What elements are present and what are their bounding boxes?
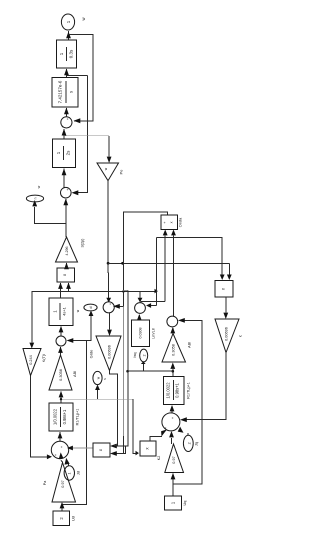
svg-text:1/0.0022: 1/0.0022 <box>53 408 58 425</box>
svg-text:0.98s+1: 0.98s+1 <box>62 409 67 424</box>
svg-text:+: + <box>60 446 64 448</box>
wire S3 to T3 <box>109 313 111 330</box>
svg-text:Uq: Uq <box>182 501 187 506</box>
svg-text:0.3s: 0.3s <box>69 49 74 58</box>
sum S4a <box>135 303 146 314</box>
svg-text:K2: K2 <box>157 456 161 460</box>
wire B5 right input from S5a <box>173 236 175 317</box>
wire Uq feedback into S5a right <box>173 320 202 484</box>
svg-text:0.3058: 0.3058 <box>172 344 176 356</box>
svg-text:+: + <box>61 126 65 128</box>
svg-text:0.3058: 0.3058 <box>59 369 63 381</box>
svg-text:1: 1 <box>68 473 72 475</box>
gain T5 0.3058 q (points up) <box>162 334 186 363</box>
svg-text:+: + <box>109 303 113 305</box>
svg-text:+: + <box>54 454 58 456</box>
svg-text:0.98s+1: 0.98s+1 <box>175 382 180 397</box>
svg-text:0.244: 0.244 <box>29 355 33 365</box>
svg-text:+: + <box>56 343 60 345</box>
wire O7 into S7 <box>68 463 70 466</box>
svg-text:R1/TLp+1: R1/TLp+1 <box>76 409 80 426</box>
svg-text:Lm/Llr: Lm/Llr <box>151 327 156 339</box>
wire B3 to S1 with faint tap to T2 <box>63 129 65 139</box>
sum S3 <box>103 302 114 313</box>
svg-text:4.296: 4.296 <box>65 247 69 256</box>
product P2q <box>140 441 156 456</box>
outport O1 "w" <box>61 14 74 30</box>
svg-text:ic: ic <box>239 334 243 337</box>
wire gray from B7 junction to O5 <box>61 398 133 400</box>
outport O2 <box>26 195 43 202</box>
transfer function B2 7.42157e-6/s <box>52 78 78 108</box>
svg-text:0.0308: 0.0308 <box>139 328 143 339</box>
wire B2 to B1 with junction <box>66 69 68 78</box>
transfer function B1 1/(0.3s) <box>57 40 77 68</box>
svg-text:Pa: Pa <box>43 481 47 485</box>
gain K(T) 0.244 (points down) <box>23 349 41 376</box>
wire lambda-q horizontal to x=128 <box>128 370 173 372</box>
svg-text:2: 2 <box>188 442 192 444</box>
svg-text:2: 2 <box>143 354 147 356</box>
transfer function B3 1/(2s) <box>53 139 76 168</box>
wire T2 output down to junction and S3 top <box>107 181 109 264</box>
product P3 <box>215 281 233 298</box>
wire P3 right input from T2 junction line <box>228 263 230 274</box>
svg-text:3(2p): 3(2p) <box>81 238 85 248</box>
svg-text:2s: 2s <box>66 150 71 156</box>
svg-text:+: + <box>66 188 70 190</box>
svg-text:+: + <box>66 118 70 120</box>
svg-text:Jq: Jq <box>194 442 199 446</box>
gain T3 0.00696 (points down) <box>96 336 121 371</box>
transfer function B4 1/(4s+1) <box>49 298 73 326</box>
svg-text:1/0.0022: 1/0.0022 <box>166 382 171 399</box>
gain 0.97d (points up) <box>52 463 76 503</box>
wire branch into S4a top <box>139 292 141 299</box>
svg-text:Pe: Pe <box>120 170 124 175</box>
gain T4 0.00696 (points down) <box>215 319 239 353</box>
svg-text:7.42157e-6: 7.42157e-6 <box>58 80 63 103</box>
wire S1 to B2 <box>65 108 67 117</box>
svg-text:n: n <box>34 197 38 199</box>
svg-text:d: d <box>89 306 93 308</box>
wire lambda-d drop to K(T) <box>31 292 33 343</box>
block B6 0.0308 <box>132 320 150 347</box>
wire P2d output gray into S7 <box>70 447 93 449</box>
wire S7 to B7 <box>59 432 61 441</box>
wire cross line to P3 <box>108 262 229 264</box>
wire U1q to K2q with junction <box>172 474 174 497</box>
sum S5a <box>167 316 178 327</box>
outport O5 <box>93 371 102 384</box>
wire B5 output drop <box>117 212 168 306</box>
sum S2b <box>56 336 66 346</box>
svg-text:w: w <box>37 185 41 188</box>
wire P1 to T1 <box>66 263 68 268</box>
svg-text:+: + <box>163 221 167 223</box>
gain ABI-d 0.3058 (points up) <box>49 355 72 390</box>
svg-text:0.00696: 0.00696 <box>225 327 229 341</box>
wire into O6 from lambda-q line <box>143 363 145 371</box>
wire K2q to S6 <box>171 438 173 444</box>
gain T2 (feedback, points down) <box>97 163 119 181</box>
gain K2q 0.97 (points up) <box>165 444 184 473</box>
wire Ud tap into S2b and O3 <box>62 341 87 505</box>
wire P2q output to S6 <box>150 437 162 442</box>
wire S6 to B8 <box>171 406 173 413</box>
wire S2 to B3 <box>63 169 65 188</box>
svg-text:Jd: Jd <box>76 471 81 475</box>
svg-text:0.97: 0.97 <box>172 456 176 463</box>
sum S7 <box>51 441 68 458</box>
inport O4 <box>183 435 193 451</box>
svg-text:+: + <box>135 311 139 313</box>
transfer function B7 <box>49 403 73 431</box>
svg-text:x: x <box>170 221 174 223</box>
svg-text:Isq: Isq <box>132 352 137 357</box>
svg-text:+: + <box>164 427 168 429</box>
wire T3 output to P2d top input <box>110 371 118 446</box>
product P1 <box>57 268 75 282</box>
wire T1 output to S2 with branch to O2 <box>65 199 67 237</box>
source U1q <box>165 496 182 510</box>
sum S2 <box>61 187 72 198</box>
product P2d <box>93 443 110 457</box>
svg-text:R1/TLp+1: R1/TLp+1 <box>187 382 191 399</box>
block B5 Onda <box>161 215 178 230</box>
svg-text:s: s <box>69 91 74 93</box>
wire S4a output to S3 hmm right-arrow segment <box>149 305 157 307</box>
gain T1 4.296 (points up) <box>56 237 78 262</box>
wire T4 output into S6 right <box>184 353 226 420</box>
svg-text:ABl: ABl <box>72 371 77 377</box>
wire 0.97d to S7 <box>61 460 63 463</box>
outport O6 below B6 <box>140 349 148 362</box>
svg-text:Ud: Ud <box>71 516 76 521</box>
wire B5 left input vertical <box>164 236 166 302</box>
wire w feedback tap <box>69 35 94 121</box>
svg-text:Grde: Grde <box>89 350 94 359</box>
svg-text:Onda: Onda <box>178 217 183 227</box>
wire long lambda-d line <box>32 292 156 293</box>
sum S6 <box>162 413 180 431</box>
sum S1 <box>61 117 72 128</box>
wire B7 to ABI-d with junction <box>60 392 62 404</box>
wire T5 to S5a <box>172 328 174 334</box>
wire inputs into P1 <box>60 283 62 292</box>
wire ABI-d to S2b <box>60 347 62 355</box>
svg-text:+: + <box>171 417 175 419</box>
wire U1d to 0.97d with junction <box>61 503 63 511</box>
wire branch to outport O2 <box>35 207 66 224</box>
svg-text:0.97: 0.97 <box>61 480 65 487</box>
svg-text:ABl: ABl <box>187 342 192 348</box>
transfer function B8 <box>164 377 185 405</box>
wire B6 to S4a <box>138 315 140 320</box>
svg-text:+: + <box>61 196 65 198</box>
wire B5 input left from x=156.7 drop <box>157 238 223 275</box>
svg-text:+: + <box>167 324 171 326</box>
wire K(T) output to S7 <box>31 376 49 457</box>
source U1d <box>53 511 70 526</box>
svg-text:4s+1: 4s+1 <box>62 306 67 316</box>
wire into P2d bottom input <box>114 446 125 454</box>
wire B1 to O1 <box>67 31 69 40</box>
arrow into S2 right <box>72 190 79 195</box>
svg-text:K(T)i: K(T)i <box>41 354 46 363</box>
wire faint tap to T2 gain <box>64 135 109 137</box>
svg-text:0.00696: 0.00696 <box>108 345 112 359</box>
arrow into S1 right <box>74 118 81 123</box>
outport O3 <box>84 304 97 311</box>
wire P3 output to T4 <box>225 297 227 313</box>
wire O4 into S6 <box>187 433 189 435</box>
svg-text:x: x <box>62 274 67 276</box>
svg-text:+: + <box>104 310 108 312</box>
wire flux feedback to S2 <box>74 75 88 192</box>
wire B4 output up to P1 left (crosses long line) <box>60 292 62 299</box>
wire S2b to B4 <box>60 327 62 337</box>
inport O7 <box>64 466 74 480</box>
wire B8 to T5 with lambda-q junction <box>172 369 174 377</box>
wire lambda-q vertical down to P2d/P2q <box>124 290 129 292</box>
wire lambda-d drop to P2q <box>136 451 139 456</box>
